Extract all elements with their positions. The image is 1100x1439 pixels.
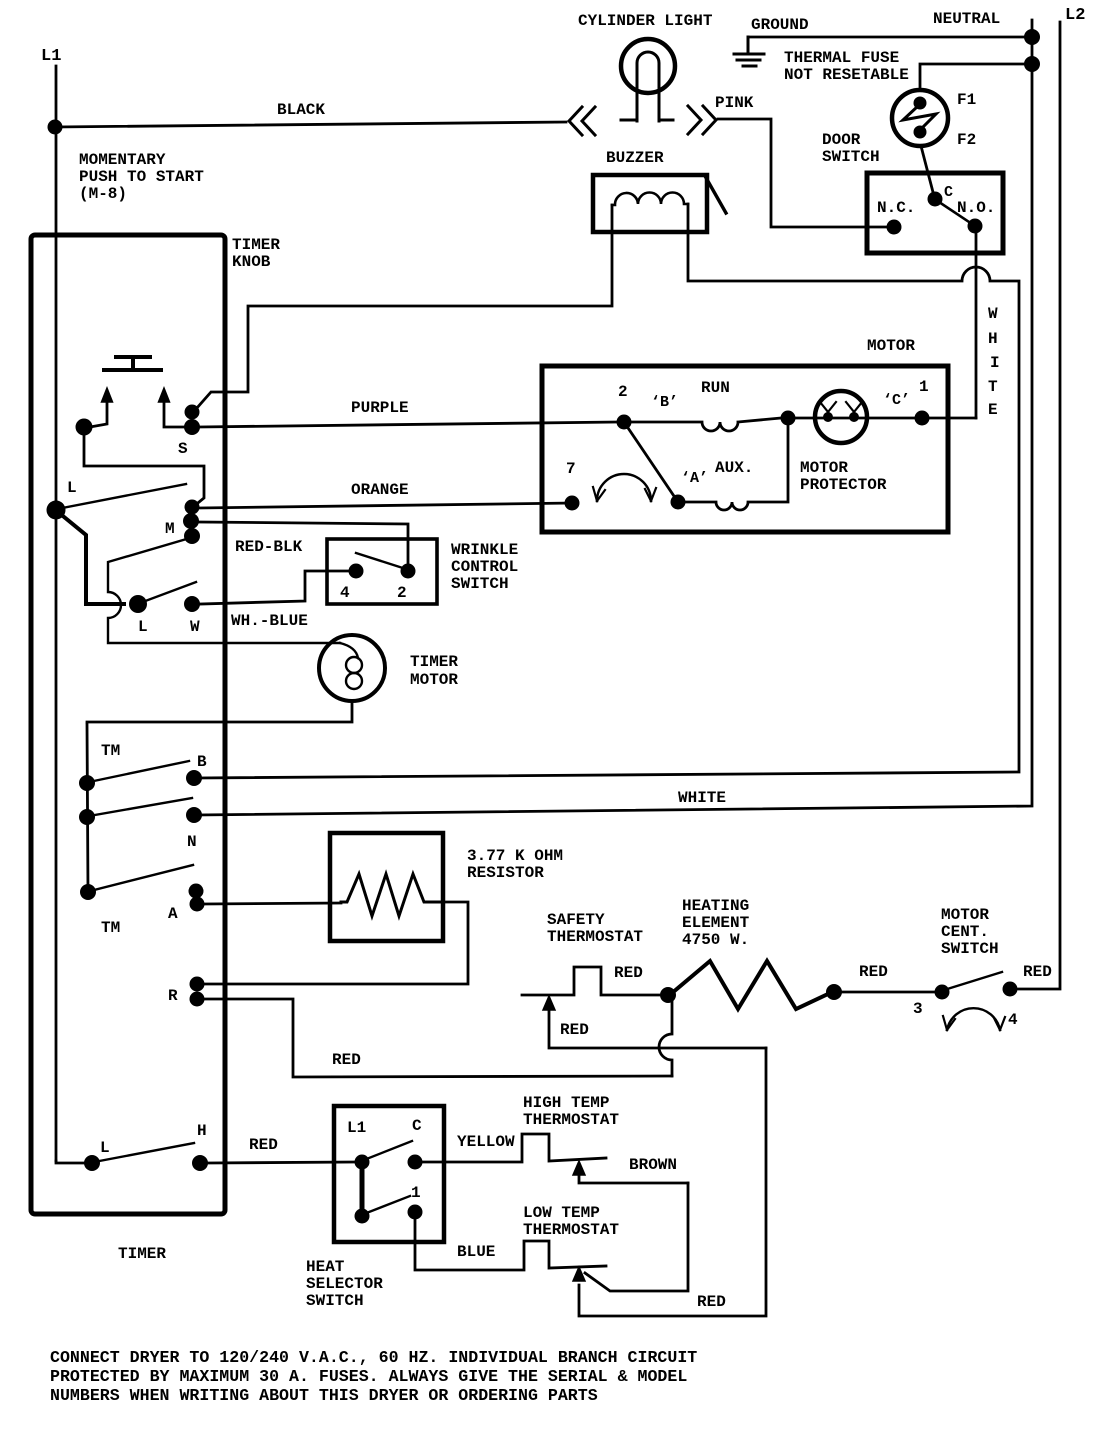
svg-text:RED: RED [560, 1021, 589, 1039]
timer motor [319, 635, 385, 701]
svg-text:DOOR: DOOR [822, 131, 861, 149]
svg-text:B: B [197, 753, 207, 771]
svg-text:ORANGE: ORANGE [351, 481, 409, 499]
svg-text:N.O.: N.O. [957, 199, 995, 217]
svg-text:3: 3 [913, 1000, 923, 1018]
wire buzzer right lead (hop over white wire) [197, 204, 1019, 778]
contact 7 [565, 496, 580, 511]
motor cent switch contact 4 [1003, 982, 1018, 997]
svg-text:CONNECT DRYER TO 120/240 V.A.C: CONNECT DRYER TO 120/240 V.A.C., 60 HZ. … [50, 1348, 697, 1367]
wire TM chain vertical [87, 724, 88, 892]
contact TM2 [79, 809, 95, 825]
momentary arrows [90, 402, 107, 427]
svg-text:F2: F2 [957, 131, 976, 149]
contact 2 [617, 415, 632, 430]
wire RED-BLK M to 2 [199, 522, 408, 564]
low temp sensor arrow [573, 1267, 585, 1281]
svg-text:BROWN: BROWN [629, 1156, 677, 1174]
wire L branch down (hop over LW wire) [58, 512, 86, 604]
switch arm C-N.O. [936, 200, 975, 226]
svg-text:H: H [988, 330, 998, 348]
svg-text:PROTECTOR: PROTECTOR [800, 476, 887, 494]
svg-text:YELLOW: YELLOW [457, 1133, 515, 1151]
svg-text:C: C [412, 1117, 422, 1135]
motor cent switch contact 3 [935, 985, 950, 1000]
safety thermostat sensor arrow [549, 1010, 766, 1048]
svg-text:MOMENTARY: MOMENTARY [79, 151, 166, 169]
contact H [192, 1155, 208, 1171]
svg-text:CONTROL: CONTROL [451, 558, 518, 576]
wire N.O. down to motor [975, 226, 978, 418]
svg-text:RED: RED [614, 964, 643, 982]
svg-text:L1: L1 [347, 1119, 366, 1137]
svg-text:2: 2 [397, 584, 407, 602]
buzzer coil [612, 193, 688, 206]
contact 4 [349, 564, 364, 579]
contacts A pair [189, 884, 204, 899]
svg-text:MOTOR: MOTOR [941, 906, 989, 924]
svg-text:W: W [988, 305, 998, 323]
contact 2 [401, 564, 416, 579]
wire junction down with hop [659, 1000, 672, 1076]
svg-text:WRINKLE: WRINKLE [451, 541, 518, 559]
svg-text:THERMOSTAT: THERMOSTAT [547, 928, 643, 946]
svg-text:T: T [988, 378, 998, 396]
svg-text:4750 W.: 4750 W. [682, 931, 749, 949]
wire buzzer left lead [196, 205, 612, 409]
wire red sensing loop [579, 1048, 766, 1316]
svg-text:HEAT: HEAT [306, 1258, 345, 1276]
switch arm L2 up [140, 582, 196, 603]
svg-text:‘C’: ‘C’ [883, 392, 910, 409]
svg-text:RED: RED [249, 1136, 278, 1154]
svg-text:NEUTRAL: NEUTRAL [933, 10, 1000, 28]
switch arm M down + wire to timer motor (hop) [108, 538, 340, 643]
svg-text:TIMER: TIMER [410, 653, 458, 671]
wire R lower to heater junction [204, 999, 672, 1077]
svg-text:PURPLE: PURPLE [351, 399, 409, 417]
contacts R pair [190, 977, 205, 992]
switch arm L-H [94, 1143, 194, 1162]
wire protector to terminal 1 [795, 417, 915, 420]
svg-text:2: 2 [618, 383, 628, 401]
svg-text:CENT.: CENT. [941, 923, 989, 941]
svg-text:BUZZER: BUZZER [606, 149, 664, 167]
lamp cylinder light [621, 39, 675, 93]
svg-text:H: H [197, 1122, 207, 1140]
connector chevrons left [569, 107, 595, 135]
switch S1 door switch body [867, 173, 1003, 253]
wire timer motor return [87, 701, 352, 722]
svg-text:TIMER: TIMER [118, 1245, 166, 1263]
wire L1 bar [360, 1162, 365, 1216]
svg-text:TM: TM [101, 742, 120, 760]
svg-text:MOTOR: MOTOR [867, 337, 915, 355]
svg-text:1: 1 [411, 1184, 421, 1202]
contact L lower [129, 595, 147, 613]
contact N.O. [968, 219, 983, 234]
motor protector [815, 391, 867, 443]
switch arm L up [57, 484, 186, 509]
resistor R1 body [330, 833, 443, 941]
wire element to cent switch [842, 991, 935, 994]
svg-text:7: 7 [566, 460, 576, 478]
svg-text:MOTOR: MOTOR [410, 671, 458, 689]
svg-text:NOT RESETABLE: NOT RESETABLE [784, 66, 909, 84]
wire L to L2 contact [86, 602, 124, 606]
svg-text:SWITCH: SWITCH [941, 940, 999, 958]
junction run/aux [781, 411, 796, 426]
contact C [408, 1155, 423, 1170]
contact N [186, 807, 202, 823]
junction L1-black [48, 120, 63, 135]
svg-text:TM: TM [101, 919, 120, 937]
svg-text:LOW TEMP: LOW TEMP [523, 1204, 600, 1222]
svg-text:BLUE: BLUE [457, 1243, 495, 1261]
contact L bottom [56, 1161, 84, 1163]
svg-text:I: I [990, 354, 1000, 372]
svg-text:S: S [178, 440, 188, 458]
wire ground-neutral [748, 36, 1032, 39]
contact S upper/lower [185, 405, 200, 420]
svg-text:RED-BLK: RED-BLK [235, 538, 303, 556]
svg-text:M: M [165, 520, 175, 538]
contact C [928, 192, 943, 207]
svg-text:HIGH TEMP: HIGH TEMP [523, 1094, 609, 1112]
svg-text:HEATING: HEATING [682, 897, 749, 915]
svg-text:(M-8): (M-8) [79, 185, 127, 203]
timer T1 body [31, 235, 225, 1214]
switch arm L1-C [364, 1141, 412, 1160]
contact L1 [355, 1155, 370, 1170]
contact TM1 [79, 775, 95, 791]
svg-text:ELEMENT: ELEMENT [682, 914, 750, 932]
rotation arc motor [597, 474, 651, 501]
safety thermostat [522, 967, 659, 995]
contacts M triple [185, 500, 200, 515]
svg-text:WH.-BLUE: WH.-BLUE [231, 612, 308, 630]
svg-text:L: L [67, 479, 77, 497]
svg-text:R: R [168, 987, 178, 1005]
wire fuse to door switch C [921, 146, 934, 196]
svg-text:SAFETY: SAFETY [547, 911, 605, 929]
svg-text:L: L [138, 618, 148, 636]
svg-text:4: 4 [1008, 1011, 1018, 1029]
svg-text:RED: RED [332, 1051, 361, 1069]
svg-text:L1: L1 [41, 47, 61, 66]
svg-text:1: 1 [919, 378, 929, 396]
switch arm L1-1 [364, 1196, 410, 1214]
svg-text:F1: F1 [957, 91, 976, 109]
svg-text:RED: RED [697, 1293, 726, 1311]
wire L1 vertical [55, 66, 58, 1161]
svg-text:WHITE: WHITE [678, 789, 726, 807]
switch arm 2 [356, 553, 406, 569]
resistor 3.77k [341, 874, 443, 916]
svg-text:RUN: RUN [701, 379, 730, 397]
contact L1 lower [355, 1209, 370, 1224]
wire neutral vertical [197, 20, 1032, 815]
contact W [184, 596, 200, 612]
wire fuse to neutral [920, 64, 1032, 90]
svg-text:SWITCH: SWITCH [306, 1292, 364, 1310]
svg-text:KNOB: KNOB [232, 253, 271, 271]
heating element 4750W [672, 961, 830, 1009]
terminal 1 [915, 411, 930, 426]
svg-text:C: C [944, 184, 953, 201]
svg-text:RED: RED [859, 963, 888, 981]
contact TM3 [80, 884, 96, 900]
svg-text:PINK: PINK [715, 94, 754, 112]
svg-text:PUSH TO START: PUSH TO START [79, 168, 204, 186]
svg-text:SWITCH: SWITCH [822, 148, 880, 166]
wire L2 vertical [1017, 22, 1060, 989]
svg-text:3.77 K OHM: 3.77 K OHM [467, 847, 563, 865]
switch S2 wrinkle control body [327, 539, 437, 604]
wire resistor to R [204, 902, 468, 984]
svg-text:PROTECTED BY MAXIMUM 30 A. FUS: PROTECTED BY MAXIMUM 30 A. FUSES. ALWAYS… [50, 1367, 687, 1386]
svg-text:BLACK: BLACK [277, 101, 325, 119]
connector chevrons right [688, 106, 716, 134]
buzzer striker [705, 176, 726, 213]
switch arm TM3 [90, 865, 193, 891]
svg-text:TIMER: TIMER [232, 236, 280, 254]
svg-text:SWITCH: SWITCH [451, 575, 509, 593]
wire BLACK horizontal [55, 122, 566, 127]
svg-text:AUX.: AUX. [715, 459, 753, 477]
svg-text:‘B’: ‘B’ [651, 394, 678, 411]
svg-text:N.C.: N.C. [877, 199, 915, 217]
svg-text:A: A [168, 905, 178, 923]
buzzer BZ1 body [593, 175, 707, 232]
svg-text:L: L [100, 1139, 110, 1157]
svg-text:W: W [190, 618, 200, 636]
switch arm 2-A [624, 422, 678, 502]
junction heater left [660, 987, 676, 1003]
thermal fuse F1-F2 [892, 90, 948, 146]
push button [104, 357, 161, 370]
svg-text:E: E [988, 401, 998, 419]
svg-text:RESISTOR: RESISTOR [467, 864, 544, 882]
svg-text:THERMOSTAT: THERMOSTAT [523, 1111, 619, 1129]
rotation arc cent switch [947, 1008, 1000, 1030]
svg-text:GROUND: GROUND [751, 16, 809, 34]
svg-text:4: 4 [340, 584, 350, 602]
contact A1 (push) [76, 419, 93, 436]
svg-text:NUMBERS WHEN WRITING ABOUT THI: NUMBERS WHEN WRITING ABOUT THIS DRYER OR… [50, 1386, 598, 1405]
wire A1 to M [84, 427, 204, 507]
contact B [186, 770, 202, 786]
svg-text:N: N [187, 833, 197, 851]
svg-text:RED: RED [1023, 963, 1052, 981]
svg-text:THERMOSTAT: THERMOSTAT [523, 1221, 619, 1239]
svg-text:L2: L2 [1065, 6, 1085, 25]
svg-text:SELECTOR: SELECTOR [306, 1275, 383, 1293]
wire A to resistor [204, 903, 341, 904]
wire terminal1 to N.O. riser [922, 417, 976, 420]
svg-text:‘A’: ‘A’ [681, 470, 708, 487]
svg-text:THERMAL FUSE: THERMAL FUSE [784, 49, 899, 67]
contact 1 [408, 1205, 423, 1220]
high temp sensor arrow [579, 1175, 688, 1183]
contact N.C. [887, 220, 902, 235]
switch arm 3 [944, 972, 1002, 990]
svg-text:CYLINDER LIGHT: CYLINDER LIGHT [578, 12, 713, 30]
switch arm TM2 [89, 798, 192, 816]
svg-text:MOTOR: MOTOR [800, 459, 848, 477]
switch arm TM1-B [89, 761, 189, 782]
motor M1 body [542, 366, 948, 532]
switch S3 heat selector body [334, 1106, 444, 1242]
